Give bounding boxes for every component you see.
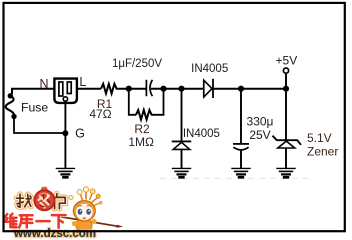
- wire D3 to ground: [285, 148, 287, 168]
- wire terminal down: [285, 73, 287, 89]
- node B: [160, 86, 166, 92]
- svg-text:25V: 25V: [249, 128, 270, 142]
- svg-text:5.1V: 5.1V: [307, 131, 332, 145]
- svg-text:R2: R2: [134, 122, 150, 136]
- ground D2: [172, 168, 191, 177]
- wire R1 to C1: [118, 88, 146, 90]
- svg-text:1μF/250V: 1μF/250V: [112, 58, 162, 70]
- wire plug to R1: [77, 88, 101, 90]
- node C: [178, 86, 184, 92]
- terminal +5V: [283, 68, 288, 73]
- svg-text:1MΩ: 1MΩ: [128, 135, 154, 149]
- diode D2: [172, 141, 191, 149]
- diode D1: [204, 79, 213, 98]
- capacitor C1: [145, 80, 147, 96]
- node fuse top: [8, 93, 13, 98]
- resistor R1: [101, 84, 118, 94]
- svg-text:IN4005: IN4005: [191, 63, 228, 75]
- svg-text:www.dzsc.com: www.dzsc.com: [13, 228, 96, 239]
- wire R2 up: [154, 89, 164, 115]
- svg-text:L: L: [79, 75, 86, 89]
- ground D3: [276, 168, 295, 177]
- svg-text:Fuse: Fuse: [21, 101, 48, 115]
- zener D3: [273, 136, 302, 148]
- plug P1: [54, 79, 77, 103]
- svg-text:+5V: +5V: [276, 54, 298, 68]
- svg-text:47Ω: 47Ω: [89, 107, 111, 121]
- wire C2 to ground: [240, 150, 242, 168]
- wire plug pin down: [64, 101, 66, 133]
- wire zener branch: [285, 89, 287, 141]
- node E: [283, 86, 289, 92]
- wire shunt diode branch: [181, 89, 183, 141]
- svg-text:330μ: 330μ: [247, 115, 274, 129]
- svg-text:IN4005: IN4005: [183, 128, 220, 140]
- node fuse bottom: [11, 114, 16, 119]
- node G: [62, 130, 68, 136]
- node A: [126, 86, 132, 92]
- fuse F1: [6, 96, 14, 117]
- wire C1 to D1: [151, 88, 204, 90]
- watermark logo: [4, 187, 123, 240]
- wire fuse to G: [14, 117, 65, 134]
- resistor R2: [136, 110, 154, 120]
- wire D1 to node E: [213, 88, 286, 90]
- node D: [238, 86, 244, 92]
- ground C2: [231, 168, 250, 177]
- resistor R2 branch: [129, 89, 136, 115]
- wire G down: [64, 133, 66, 168]
- svg-text:Zener: Zener: [307, 145, 338, 159]
- faint artifact line: [160, 177, 312, 179]
- wire cap branch: [240, 89, 242, 144]
- svg-text:N: N: [39, 77, 48, 91]
- svg-text:G: G: [75, 127, 85, 141]
- wire D2 to ground: [181, 149, 183, 168]
- capacitor C2: [233, 144, 249, 150]
- wire N horizontal: [12, 89, 55, 94]
- ground G: [56, 168, 75, 177]
- mascot: [69, 187, 103, 234]
